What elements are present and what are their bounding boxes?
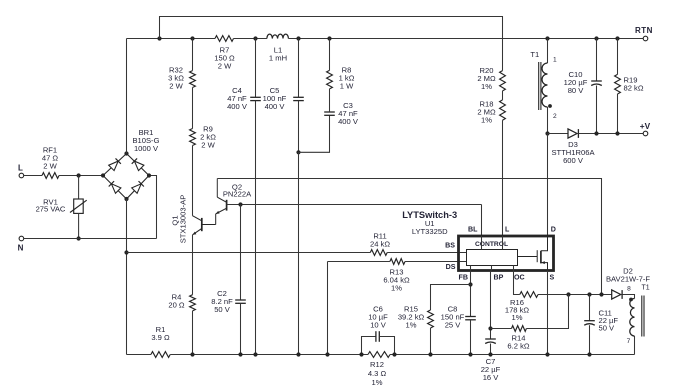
diode D3 [568, 129, 577, 138]
wire [470, 271, 472, 317]
wire [622, 295, 634, 299]
svg-text:FB: FB [459, 274, 468, 282]
wire [547, 134, 549, 237]
capacitor C7 [485, 338, 496, 340]
resistor R16 [520, 292, 538, 298]
resistor R18 [500, 100, 506, 120]
resistor R12 [368, 352, 390, 358]
terminal RTN [643, 36, 648, 41]
resistor R14 [491, 328, 512, 330]
wire [192, 88, 194, 129]
node C [124, 250, 128, 254]
capacitor C2 [240, 205, 242, 301]
svg-text:7: 7 [627, 338, 631, 345]
svg-text:T1: T1 [642, 285, 650, 292]
wire [548, 133, 569, 135]
node B [77, 236, 81, 240]
op-amp U1 outline [459, 236, 554, 271]
wire [579, 133, 644, 135]
wire [470, 320, 472, 355]
node S2 [253, 352, 257, 356]
svg-text:1 W: 1 W [340, 82, 354, 91]
svg-text:80 V: 80 V [568, 86, 585, 95]
svg-text:275 VAC: 275 VAC [36, 205, 66, 214]
terminal L [19, 173, 24, 178]
wire [481, 236, 483, 250]
capacitor C11 [589, 295, 591, 321]
terminal +V [643, 131, 648, 136]
node K [615, 36, 619, 40]
svg-text:BP: BP [494, 274, 504, 282]
node X [468, 282, 472, 286]
svg-text:10 V: 10 V [370, 321, 387, 330]
node R [238, 352, 242, 356]
node J [594, 36, 598, 40]
wire [547, 271, 549, 355]
svg-text:D: D [551, 226, 556, 234]
svg-text:BAV21W-7-F: BAV21W-7-F [606, 275, 650, 284]
resistor R32 [190, 71, 196, 88]
svg-text:1000 V: 1000 V [134, 144, 159, 153]
resistor R8 [327, 70, 333, 89]
svg-text:LYT3325D: LYT3325D [412, 227, 448, 236]
svg-text:BL: BL [468, 226, 478, 234]
svg-text:1 mH: 1 mH [269, 54, 287, 63]
wire [502, 236, 504, 250]
svg-text:BS: BS [445, 242, 455, 250]
svg-text:R12: R12 [370, 360, 384, 369]
transformer T1 primary winding [547, 39, 549, 64]
wire [405, 261, 467, 263]
node Z [428, 352, 432, 356]
wire [192, 146, 194, 216]
node AE [599, 292, 603, 296]
transistor Q2 [226, 200, 228, 211]
svg-text:16 V: 16 V [483, 373, 500, 382]
svg-text:L: L [18, 163, 23, 172]
resistor RF1 [42, 173, 59, 179]
node AG [587, 352, 591, 356]
resistor R13 [390, 259, 405, 265]
svg-text:1%: 1% [481, 82, 492, 91]
wire [298, 101, 300, 153]
wire [490, 344, 492, 355]
node H [327, 36, 331, 40]
svg-text:2 W: 2 W [201, 141, 215, 150]
svg-text:STX13003-AP: STX13003-AP [179, 195, 188, 244]
capacitor C10 [596, 39, 598, 82]
svg-text:20 Ω: 20 Ω [168, 301, 185, 310]
wire [24, 238, 157, 240]
svg-text:600 V: 600 V [563, 156, 584, 165]
svg-text:RTN: RTN [635, 26, 653, 35]
svg-text:8: 8 [627, 286, 631, 293]
resistor R4 [192, 235, 194, 295]
node V [359, 352, 363, 356]
svg-text:DS: DS [446, 263, 456, 271]
svg-text:24 kΩ: 24 kΩ [370, 240, 390, 249]
capacitor C3 [324, 111, 335, 113]
svg-text:1: 1 [553, 57, 557, 64]
wire [255, 101, 257, 355]
varistor RV1 [78, 176, 80, 200]
node AF [545, 352, 549, 356]
transistor U1 MOSFET [541, 236, 548, 251]
wire [160, 17, 503, 71]
node AB [488, 352, 492, 356]
wire [192, 39, 194, 71]
svg-text:1%: 1% [372, 378, 383, 387]
node G [296, 36, 300, 40]
resistor R7 [215, 36, 234, 42]
node Y [468, 352, 472, 356]
wire [234, 38, 267, 40]
svg-text:OC: OC [514, 274, 525, 282]
svg-text:400 V: 400 V [265, 102, 286, 111]
resistor R20 [500, 71, 506, 91]
svg-text:T1: T1 [530, 50, 539, 59]
wire [490, 271, 492, 340]
node P [238, 202, 242, 206]
svg-text:2 W: 2 W [169, 82, 183, 91]
node L1j [296, 150, 300, 154]
wire [328, 261, 390, 263]
resistor R11 [370, 250, 387, 256]
wire [491, 266, 493, 271]
wire [127, 252, 371, 254]
node W [392, 352, 396, 356]
svg-text:1%: 1% [391, 284, 402, 293]
diode D2 [612, 290, 621, 299]
wire [288, 38, 643, 40]
node Q [190, 352, 194, 356]
wire [387, 252, 466, 254]
node U [325, 352, 329, 356]
wire [481, 205, 483, 237]
svg-text:1%: 1% [406, 321, 417, 330]
capacitor C5 [298, 39, 300, 98]
svg-text:L: L [505, 226, 510, 234]
svg-text:82 kΩ: 82 kΩ [624, 84, 644, 93]
svg-text:50 V: 50 V [214, 305, 231, 314]
wire [502, 91, 504, 100]
wire [298, 152, 300, 354]
svg-text:2: 2 [553, 113, 557, 120]
wire [59, 175, 103, 177]
svg-text:1%: 1% [512, 313, 523, 322]
wire [217, 179, 601, 295]
svg-text:400 V: 400 V [227, 102, 248, 111]
svg-text:2 W: 2 W [218, 62, 232, 71]
node N2 [594, 131, 598, 135]
wire [126, 39, 128, 154]
wire [329, 39, 331, 71]
svg-text:50 V: 50 V [599, 324, 616, 333]
transistor Q1 [201, 218, 203, 231]
resistor R9 [190, 129, 196, 146]
svg-text:2 W: 2 W [43, 162, 57, 171]
wire [170, 354, 368, 356]
capacitor C6 [362, 337, 376, 355]
wire [513, 266, 515, 271]
wire [24, 175, 42, 177]
svg-text:1%: 1% [481, 116, 492, 125]
node E [190, 36, 194, 40]
wire [470, 266, 472, 271]
svg-text:4.3 Ω: 4.3 Ω [368, 369, 387, 378]
node O [615, 131, 619, 135]
node M [545, 131, 549, 135]
node F [253, 36, 257, 40]
terminal N [19, 236, 24, 241]
wire [127, 354, 151, 356]
wire [538, 294, 612, 296]
svg-text:CONTROL: CONTROL [475, 241, 508, 248]
resistor R15 [431, 285, 471, 311]
node D [157, 36, 161, 40]
wire [299, 115, 330, 152]
resistor R1 [151, 352, 170, 358]
capacitor C4 [255, 39, 257, 98]
wire [127, 38, 216, 40]
svg-text:3.9 Ω: 3.9 Ω [151, 333, 170, 342]
transformer T1 aux winding [630, 299, 635, 337]
node A [77, 173, 81, 177]
svg-text:+V: +V [640, 121, 651, 131]
svg-text:6.2 kΩ: 6.2 kΩ [507, 342, 529, 351]
svg-text:N: N [18, 243, 24, 252]
wire [390, 354, 635, 356]
wire [502, 120, 504, 236]
svg-text:S: S [550, 274, 555, 282]
capacitor C8 [465, 316, 476, 318]
wire [149, 176, 157, 239]
wire [126, 199, 128, 355]
svg-text:25 V: 25 V [445, 321, 462, 330]
resistor R19 [617, 39, 619, 75]
node T [296, 352, 300, 356]
svg-text:PN222A: PN222A [223, 190, 252, 199]
inductor L1 [267, 34, 289, 38]
node I [545, 36, 549, 40]
node AA [488, 326, 492, 330]
wire [227, 204, 482, 206]
wire [514, 271, 520, 295]
wire [329, 89, 331, 112]
bridge rectifier BR1 [103, 154, 127, 176]
node AC [566, 292, 570, 296]
node AD [587, 292, 591, 296]
wire [327, 262, 329, 355]
svg-text:400 V: 400 V [338, 117, 359, 126]
